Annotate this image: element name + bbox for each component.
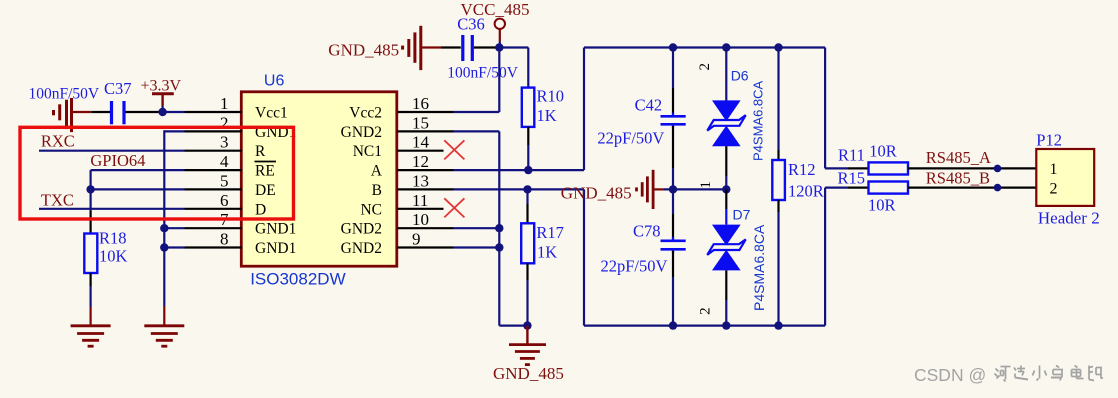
wire mid node to C78 — [672, 189, 674, 239]
net label RS485_A — [926, 148, 991, 167]
pin name GND2 right row 8 — [341, 240, 382, 257]
svg-text:4: 4 — [220, 152, 229, 171]
wire RXC to pin3 R — [39, 150, 242, 152]
svg-text:1K: 1K — [537, 243, 557, 262]
net label GPIO64 — [90, 151, 145, 170]
value 1K of R17 — [537, 243, 557, 262]
svg-text:C78: C78 — [633, 222, 661, 241]
net label RS485_B — [926, 169, 990, 188]
capacitor C37 — [112, 101, 125, 124]
value 10R of R11 — [869, 142, 897, 161]
ground GND_485 power-bar symbol top — [403, 26, 421, 70]
pin number 12 — [412, 152, 429, 171]
pin number 4 — [220, 152, 229, 171]
wire top rail to R12 — [777, 48, 779, 161]
junction pin7 GND1 — [160, 224, 168, 232]
svg-text:22pF/50V: 22pF/50V — [601, 257, 668, 276]
svg-text:B: B — [372, 182, 382, 199]
value P4SMA6.8CA of D6 — [751, 80, 766, 161]
svg-text:GPIO64: GPIO64 — [90, 151, 145, 170]
pin number 16 — [412, 94, 429, 113]
wire R18 to ground — [89, 273, 91, 325]
wire C42 to mid node — [672, 126, 674, 189]
svg-text:1: 1 — [1050, 161, 1058, 178]
diode D6 TVS P4SMA6.8CA — [707, 100, 745, 146]
label C37 — [104, 79, 132, 98]
wire R15 to header pin2 RS485_B — [908, 187, 1036, 189]
junction bottom rail R12 — [774, 321, 782, 329]
wire pin9 GND2 — [397, 246, 499, 248]
svg-text:100nF/50V: 100nF/50V — [29, 86, 100, 103]
svg-text:R10: R10 — [537, 87, 565, 106]
svg-text:GND1: GND1 — [255, 221, 296, 238]
pin number 1 of D6 — [698, 181, 714, 189]
junction bottom rail C78 — [669, 321, 677, 329]
pin number 2 — [220, 113, 229, 132]
svg-text:8: 8 — [220, 230, 229, 249]
pin name B right row 5 — [372, 182, 382, 199]
resistor R10 — [522, 88, 535, 127]
wire TXC to pin6 D — [39, 208, 242, 210]
wire B branch right column to R15 — [825, 188, 868, 326]
label R17 — [536, 223, 564, 242]
designator U6 — [264, 73, 285, 90]
junction top rail D6 — [722, 43, 730, 51]
svg-text:C37: C37 — [104, 79, 132, 98]
pin number 9 — [412, 230, 421, 249]
red annotation box — [20, 127, 294, 219]
svg-text:RE: RE — [255, 163, 275, 180]
wire R12 to bottom rail — [777, 200, 779, 326]
wire VCC junction right to R10 — [499, 48, 528, 88]
pin name Vcc2 right row 1 — [349, 105, 382, 122]
wire TVS bottom rail — [584, 325, 825, 327]
pin name GND2 right row 7 — [341, 221, 382, 238]
svg-text:9: 9 — [412, 230, 421, 249]
wire pin7 GND1 — [164, 227, 242, 229]
pin name GND1 row 8 — [255, 240, 296, 257]
junction VCC_485 node — [495, 43, 503, 51]
svg-text:2: 2 — [1050, 181, 1058, 198]
svg-text:R: R — [255, 143, 266, 160]
label C42 — [635, 96, 663, 115]
wire D7 to bottom rail — [725, 270, 727, 325]
svg-text:16: 16 — [412, 94, 429, 113]
svg-text:10R: 10R — [868, 196, 896, 215]
resistor R11 — [869, 162, 909, 174]
wire C78 to bottom rail — [672, 251, 674, 326]
label C78 — [633, 222, 661, 241]
svg-text:5: 5 — [220, 171, 229, 190]
pin name Vcc1 row 1 — [255, 105, 288, 122]
wire DE junction down to R18 — [89, 189, 91, 233]
op-amp U6 ISO3082DW transceiver body — [241, 92, 396, 266]
pin name A right row 4 — [371, 163, 383, 180]
svg-text:+3.3V: +3.3V — [141, 78, 182, 95]
junction A R10 — [524, 166, 532, 174]
ground GND_485 power-bar symbol middle — [637, 170, 654, 209]
wire pin2 GND1 net — [164, 130, 242, 324]
svg-text:10R: 10R — [869, 142, 897, 161]
svg-text:VCC_485: VCC_485 — [461, 0, 530, 19]
svg-text:1: 1 — [220, 94, 229, 113]
svg-text:CSDN @: CSDN @ — [914, 365, 986, 385]
svg-text:3: 3 — [220, 133, 229, 152]
designator P12 — [1036, 131, 1062, 150]
value 22pF/50V of C78 — [601, 257, 668, 276]
svg-text:2: 2 — [220, 113, 229, 132]
wire pin10 GND2 — [397, 227, 499, 229]
svg-text:DE: DE — [255, 182, 276, 199]
svg-text:ISO3082DW: ISO3082DW — [250, 270, 345, 289]
pin name NC1 right row 3 — [353, 143, 382, 160]
svg-text:U6: U6 — [264, 73, 285, 90]
wire VCC junction down to pin16 Vcc2 — [397, 48, 499, 113]
junction mid node C42 C78 — [669, 185, 677, 193]
wire A branch right column to R11 — [825, 48, 868, 169]
svg-text:Header 2: Header 2 — [1038, 209, 1100, 228]
watermark chinese glyphs — [995, 366, 1104, 382]
net label GND_485 middle — [561, 184, 632, 203]
wire GND_485 to mid node — [654, 188, 726, 190]
wire top rail to D6 — [725, 48, 727, 101]
comment ISO3082DW — [250, 270, 345, 289]
label R18 — [99, 229, 127, 248]
junction DE RE R18 — [86, 185, 94, 193]
pin number 7 — [220, 210, 229, 229]
wire pin12 A net — [397, 48, 584, 171]
junction pin1 +3.3V — [158, 108, 166, 116]
svg-text:R15: R15 — [838, 168, 866, 187]
net label VCC_485 — [461, 0, 530, 19]
wire R17 to ground junction — [526, 263, 528, 325]
pin number 2 of D6 — [697, 63, 713, 71]
label R11 — [838, 146, 865, 165]
wire R10 to A line — [527, 127, 529, 170]
svg-text:D6: D6 — [731, 68, 749, 84]
pin number 5 — [220, 171, 229, 190]
svg-text:D: D — [255, 201, 266, 218]
svg-text:NC1: NC1 — [353, 143, 382, 160]
svg-text:RS485_B: RS485_B — [926, 169, 990, 188]
pin number 3 — [220, 133, 229, 152]
value 10K of R18 — [99, 247, 128, 266]
resistor R18 — [84, 234, 97, 274]
net label GND_485 bottom — [493, 364, 564, 383]
resistor R15 — [869, 182, 909, 194]
diode D7 TVS P4SMA6.8CA — [707, 225, 745, 271]
net label GND_485 top — [328, 41, 399, 60]
svg-text:R12: R12 — [788, 160, 816, 179]
svg-text:1K: 1K — [537, 106, 557, 125]
comment Header 2 — [1038, 209, 1100, 228]
label R10 — [537, 87, 565, 106]
svg-text:P4SMA6.8CA: P4SMA6.8CA — [751, 80, 766, 161]
svg-text:6: 6 — [220, 191, 229, 210]
label C36 — [457, 15, 485, 34]
svg-text:10: 10 — [412, 210, 429, 229]
junction RS485_A node — [994, 165, 1002, 173]
wire TVS top rail — [584, 46, 825, 48]
svg-text:GND2: GND2 — [341, 124, 382, 141]
pin number 11 — [412, 191, 428, 210]
pin number 2 of D7 — [698, 307, 714, 315]
wire GND_485 to C36 — [422, 46, 461, 48]
pin name R row 3 — [255, 143, 266, 160]
value P4SMA6.8CA of D7 — [751, 224, 767, 311]
svg-text:RS485_A: RS485_A — [926, 148, 991, 167]
svg-text:GND_485: GND_485 — [561, 184, 632, 203]
wire mid node to D7 — [725, 189, 727, 224]
label R15 — [838, 168, 866, 187]
junction top rail R12 — [774, 43, 782, 51]
svg-text:100nF/50V: 100nF/50V — [447, 65, 518, 82]
wire pin13 B net — [397, 189, 584, 325]
junction pin10 GND2 — [495, 224, 503, 232]
wire GPIO64 to pin4 RE — [91, 170, 242, 189]
svg-text:R18: R18 — [99, 229, 127, 248]
svg-text:2: 2 — [698, 307, 714, 315]
capacitor C78 — [661, 237, 686, 253]
svg-text:P12: P12 — [1036, 131, 1062, 150]
svg-text:A: A — [371, 163, 383, 180]
resistor R12 — [772, 160, 785, 200]
junction pin8 GND1 — [160, 243, 168, 251]
svg-text:1: 1 — [698, 181, 714, 189]
svg-text:RXC: RXC — [41, 132, 75, 151]
wire D6 to mid node — [725, 146, 727, 189]
svg-text:C42: C42 — [635, 96, 663, 115]
svg-text:13: 13 — [412, 171, 429, 190]
value 100nF/50V of C36 — [447, 65, 518, 82]
pin number 8 — [220, 230, 229, 249]
svg-text:Vcc1: Vcc1 — [255, 105, 288, 122]
svg-text:15: 15 — [412, 113, 429, 132]
svg-text:D7: D7 — [733, 207, 751, 223]
pin name GND2 right row 2 — [341, 124, 382, 141]
junction pin9 GND2 — [495, 243, 503, 251]
svg-text:GND_485: GND_485 — [328, 41, 399, 60]
wire pin15 GND2 down — [397, 131, 527, 325]
svg-text:120R: 120R — [788, 182, 824, 201]
connector P12 Header 2 body — [1036, 149, 1094, 206]
power +3.3V bar symbol — [152, 94, 174, 112]
junction B R17 — [523, 185, 531, 193]
svg-text:GND1: GND1 — [255, 240, 296, 257]
pin number 10 — [412, 210, 429, 229]
svg-text:Vcc2: Vcc2 — [349, 105, 382, 122]
junction top rail C42 — [669, 43, 677, 51]
svg-text:GND2: GND2 — [341, 240, 382, 257]
ground GND power-bar symbol at C37 — [54, 98, 72, 132]
value 10R of R15 — [868, 196, 896, 215]
no-connect X mark pin14 — [444, 140, 464, 159]
watermark CSDN text — [914, 365, 986, 385]
pin name GND1 row 7 — [255, 221, 296, 238]
wire pin1 Vcc1 net +3.3V — [73, 111, 242, 113]
label D6 — [731, 68, 749, 84]
value 1K of R10 — [537, 106, 557, 125]
wire top rail to C42 — [672, 48, 674, 115]
pin name D row 6 — [255, 201, 266, 218]
svg-text:GND_485: GND_485 — [493, 364, 564, 383]
label R12 — [788, 160, 816, 179]
ground GND earth symbol below GND1 wire — [144, 326, 184, 346]
pin name NC right row 6 — [360, 201, 382, 218]
junction bottom rail D7 — [722, 321, 730, 329]
value 120R of R12 — [788, 182, 824, 201]
net label +3.3V — [141, 78, 182, 95]
svg-text:P4SMA6.8CA: P4SMA6.8CA — [751, 224, 767, 311]
junction mid node D6 D7 — [722, 185, 730, 193]
resistor R17 — [521, 223, 534, 263]
svg-text:NC: NC — [360, 201, 382, 218]
wire pin8 GND1 — [164, 246, 242, 248]
ground GND_485 earth symbol bottom — [509, 326, 546, 365]
wire pin14 NC1 stub — [397, 150, 444, 152]
net label TXC — [41, 191, 74, 210]
svg-text:GND2: GND2 — [341, 221, 382, 238]
capacitor C36 — [463, 35, 473, 61]
svg-text:10K: 10K — [99, 247, 128, 266]
wire pin5 DE — [91, 188, 242, 190]
pin number 1 — [220, 94, 229, 113]
wire C36 to VCC junction — [474, 46, 499, 48]
wire B junction down to R17 — [526, 189, 528, 223]
svg-text:11: 11 — [412, 191, 428, 210]
ground GND earth symbol below R18 — [71, 326, 111, 346]
value 22pF/50V of C42 — [597, 129, 664, 148]
pin name GND1 row 2 — [255, 124, 296, 141]
svg-text:2: 2 — [697, 63, 713, 71]
pin number 13 — [412, 171, 429, 190]
wire pin11 NC stub — [397, 208, 444, 210]
pin number 6 — [220, 191, 229, 210]
value 100nF/50V of C37 — [29, 86, 100, 103]
junction GND2 ground node — [523, 321, 531, 329]
svg-text:22pF/50V: 22pF/50V — [597, 129, 664, 148]
pin name DE row 5 — [255, 182, 276, 199]
pin number 14 — [412, 133, 430, 152]
wire R11 to header pin1 RS485_A — [908, 167, 1036, 169]
capacitor C42 — [661, 113, 686, 129]
pin number 2 of P12 — [1050, 181, 1058, 198]
svg-text:12: 12 — [412, 152, 429, 171]
svg-text:R11: R11 — [838, 146, 865, 165]
net label RXC — [41, 132, 75, 151]
pin number 15 — [412, 113, 429, 132]
svg-text:R17: R17 — [536, 223, 564, 242]
label D7 — [733, 207, 751, 223]
svg-text:TXC: TXC — [41, 191, 74, 210]
power VCC_485 circle symbol — [495, 19, 505, 48]
no-connect X mark pin11 — [444, 198, 464, 217]
junction RS485_B node — [994, 184, 1002, 192]
svg-text:14: 14 — [412, 133, 430, 152]
pin 4 name RE with overline — [255, 162, 277, 180]
pin number 1 of P12 — [1050, 161, 1058, 178]
